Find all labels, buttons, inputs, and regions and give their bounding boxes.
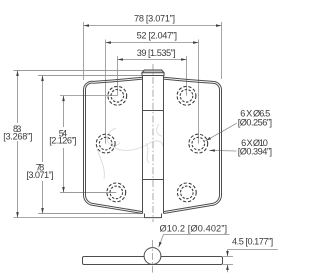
svg-text:Ø10.2 [Ø0.402”]: Ø10.2 [Ø0.402”]	[160, 224, 228, 234]
svg-text:[3.071”]: [3.071”]	[26, 170, 53, 180]
svg-text:[2.126”]: [2.126”]	[49, 136, 76, 146]
svg-text:[3.268”]: [3.268”]	[3, 132, 32, 142]
svg-text:4.5 [0.177”]: 4.5 [0.177”]	[232, 236, 273, 246]
svg-text:52 [2.047”]: 52 [2.047”]	[137, 31, 177, 41]
svg-text:[Ø0.256”]: [Ø0.256”]	[238, 118, 272, 128]
svg-text:[Ø0.394”]: [Ø0.394”]	[238, 146, 272, 156]
svg-text:39 [1.535”]: 39 [1.535”]	[137, 48, 176, 58]
svg-text:78 [3.071”]: 78 [3.071”]	[134, 13, 175, 23]
